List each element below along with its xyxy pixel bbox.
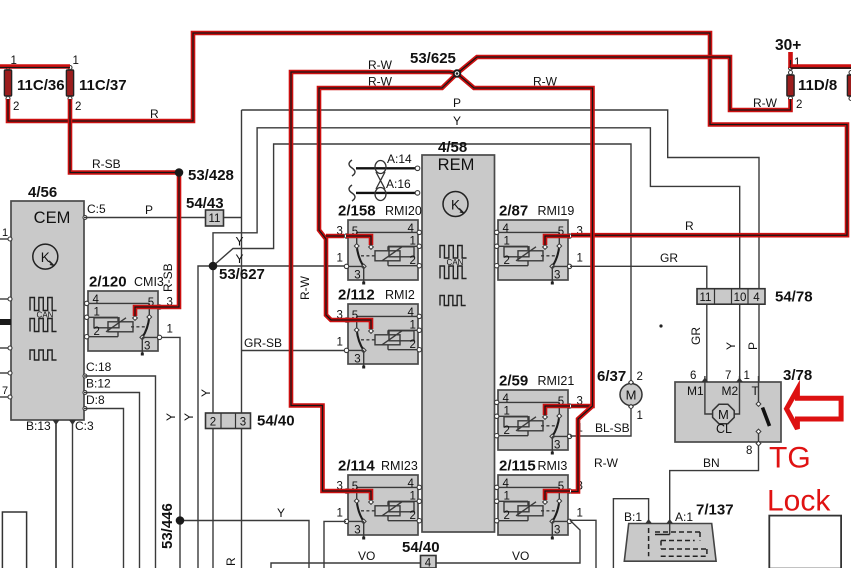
svg-text:4: 4 <box>503 393 510 405</box>
wire R-SB: 11C/37 pin2 down to junction 53/428 then down to relay 2/120 pin 3 <box>70 99 179 307</box>
svg-text:4: 4 <box>503 223 510 235</box>
wire D:8 from CEM down <box>83 393 124 568</box>
junction 53/428 <box>188 167 234 184</box>
wire Y: junction 53/627 diagonal path to motor 6/37 <box>213 144 631 381</box>
wire VO: relay 2/115 pin 1 through connector 54/40 pin 4 <box>271 520 596 568</box>
svg-text:1: 1 <box>504 491 510 503</box>
stray ink dot <box>659 324 662 327</box>
svg-text:Y: Y <box>236 235 244 249</box>
svg-text:2/59: 2/59 <box>499 373 528 390</box>
wire: 11D/8 pin1 to right edge <box>791 67 851 69</box>
svg-text:VO: VO <box>358 549 375 563</box>
wire: battery feed top-left horizontal <box>0 67 70 69</box>
svg-text:1: 1 <box>577 508 583 520</box>
svg-text:2: 2 <box>94 326 100 338</box>
REM control module 4/58 <box>422 139 495 532</box>
svg-text:2: 2 <box>504 425 510 437</box>
svg-text:1: 1 <box>577 253 583 265</box>
connector 54/78 pins 11 10 4 <box>697 289 813 306</box>
fuse 11C/37 <box>66 55 126 113</box>
red arrow pointing at 3/78 lock switch <box>787 389 842 429</box>
svg-text:11D/8: 11D/8 <box>798 77 837 94</box>
svg-text:CEM: CEM <box>34 209 71 227</box>
svg-text:2/87: 2/87 <box>499 203 528 220</box>
svg-text:B:13: B:13 <box>26 419 51 433</box>
component box at bottom left edge <box>2 512 26 568</box>
wire Y: junction 53/627 down to connector 54/40 pin 2 <box>212 266 214 568</box>
wire Y: junction 53/627 right arm to relay 2/158 pin 1 <box>213 265 346 267</box>
wire C:18 from CEM down <box>83 360 156 568</box>
twisted pair wires A:14 A:16 into REM <box>349 152 420 201</box>
svg-text:C:5: C:5 <box>87 202 106 216</box>
svg-text:1: 1 <box>744 370 750 382</box>
svg-text:1: 1 <box>94 307 100 319</box>
svg-text:11C/36: 11C/36 <box>17 77 65 94</box>
red marker overlay traces <box>0 64 70 68</box>
svg-text:10: 10 <box>734 292 747 304</box>
svg-text:3: 3 <box>354 354 360 366</box>
svg-text:R-SB: R-SB <box>92 157 121 171</box>
svg-text:53/428: 53/428 <box>188 167 234 184</box>
svg-text:11C/37: 11C/37 <box>79 77 127 94</box>
svg-text:RMI3: RMI3 <box>538 459 568 473</box>
svg-text:A:1: A:1 <box>675 510 693 524</box>
fuse 11D/8 <box>787 71 837 112</box>
svg-text:8: 8 <box>746 445 752 457</box>
switch T inside 3/78 with pin 8 <box>746 382 770 457</box>
svg-text:3: 3 <box>240 417 246 429</box>
svg-text:54/40: 54/40 <box>402 539 440 556</box>
svg-text:4: 4 <box>753 292 760 304</box>
svg-text:CL: CL <box>716 422 732 436</box>
svg-text:3: 3 <box>144 341 150 353</box>
svg-text:3/78: 3/78 <box>783 367 812 384</box>
wire P bus: CEM C:5 to connector 54/43 and vertical bus to GR-SB and 54/40 pin 3 <box>83 110 242 568</box>
svg-text:53/625: 53/625 <box>410 50 456 67</box>
svg-text:30+: 30+ <box>775 37 801 54</box>
svg-text:Y: Y <box>199 389 213 397</box>
fuse 11C/36 <box>4 55 64 113</box>
wire from 7/137 B:1 down to bottom edge <box>613 499 648 568</box>
svg-text:VO: VO <box>512 549 529 563</box>
svg-text:7: 7 <box>725 370 731 382</box>
svg-text:P: P <box>453 96 461 110</box>
svg-text:M: M <box>626 388 637 403</box>
svg-text:CMI3: CMI3 <box>134 275 164 289</box>
svg-text:4: 4 <box>408 478 415 490</box>
tailgate lock unit 3/78 <box>675 367 812 442</box>
relay 2/87 RMI19 <box>495 203 583 285</box>
connector 54/40 pin 4 <box>402 539 440 568</box>
svg-text:GR: GR <box>660 251 678 265</box>
wire Y: junction 53/627 up path to M2 line <box>213 114 740 289</box>
motor 6/37 <box>597 368 643 422</box>
svg-text:1: 1 <box>410 320 416 332</box>
svg-text:Y: Y <box>236 252 244 266</box>
svg-text:GR: GR <box>689 327 703 345</box>
svg-text:RMI19: RMI19 <box>538 204 575 218</box>
relay 2/59 RMI21 <box>495 373 583 455</box>
svg-text:P: P <box>746 342 760 350</box>
CEM control module 4/56 <box>11 184 84 420</box>
svg-text:2: 2 <box>410 339 416 351</box>
svg-text:RMI23: RMI23 <box>381 459 418 473</box>
svg-text:54/78: 54/78 <box>775 289 813 306</box>
svg-text:53/627: 53/627 <box>219 266 265 283</box>
svg-text:2/120: 2/120 <box>89 274 127 291</box>
junction 53/446 <box>159 503 184 549</box>
svg-text:3: 3 <box>554 525 560 537</box>
wire B:12 from CEM down <box>83 377 140 568</box>
svg-text:K: K <box>41 250 50 265</box>
svg-text:3: 3 <box>354 525 360 537</box>
wire 30+ feed into fuse 11D/8 <box>775 37 801 70</box>
svg-text:11: 11 <box>700 292 712 304</box>
wire P below 54/78 pin 4 to 3/78 pin 1 T <box>746 304 760 382</box>
svg-text:RMI20: RMI20 <box>385 204 422 218</box>
svg-text:C:18: C:18 <box>86 360 112 374</box>
svg-text:53/446: 53/446 <box>159 503 176 549</box>
serial comm symbol in CEM <box>30 350 57 360</box>
svg-text:11: 11 <box>209 213 221 225</box>
svg-text:4: 4 <box>425 558 432 568</box>
relay 2/115 RMI3 <box>495 458 583 540</box>
svg-text:2: 2 <box>75 101 81 113</box>
relay 2/120 CMI3 <box>84 274 173 356</box>
svg-text:4: 4 <box>503 478 510 490</box>
svg-text:Y: Y <box>182 413 196 421</box>
connector 54/40 pins 2 and 3 <box>206 413 295 430</box>
svg-text:REM: REM <box>438 156 475 174</box>
connector 54/43 pin 11 <box>186 195 224 226</box>
svg-text:TG: TG <box>769 442 811 475</box>
wire BN: 3/78 pin 8 to 7/137 A:1 <box>670 446 759 522</box>
svg-text:2: 2 <box>796 99 802 111</box>
svg-text:B:1: B:1 <box>624 510 642 524</box>
relay 2/114 RMI23 <box>337 458 423 540</box>
svg-text:Lock: Lock <box>767 485 831 518</box>
junction 53/627 <box>209 235 265 284</box>
svg-text:M1: M1 <box>687 384 704 398</box>
svg-text:4/58: 4/58 <box>438 139 467 156</box>
motor M CL inside 3/78 <box>713 404 735 436</box>
serial comm symbol in REM <box>440 296 466 306</box>
svg-text:6: 6 <box>690 370 696 382</box>
svg-text:2: 2 <box>410 255 416 267</box>
wire BL-SB: relay 2/59 pin 1 to motor 6/37 <box>570 407 631 436</box>
svg-text:Y: Y <box>724 342 738 350</box>
svg-text:BL-SB: BL-SB <box>595 421 630 435</box>
svg-text:D:8: D:8 <box>86 393 105 407</box>
wire Y below 54/78 pin 10 to 3/78 M2 <box>724 304 740 382</box>
CEM left side pin stubs <box>0 227 12 399</box>
svg-text:Y: Y <box>277 506 285 520</box>
node 53/625 <box>410 50 456 67</box>
wire R-W upper-left: node 53/625 west to x291, down, jog, down to relay 2/114 pin 3 <box>291 58 457 491</box>
svg-text:BN: BN <box>703 456 720 470</box>
svg-text:B:12: B:12 <box>86 377 111 391</box>
svg-text:M2: M2 <box>722 384 739 398</box>
svg-text:7: 7 <box>2 385 8 397</box>
svg-text:2: 2 <box>504 255 510 267</box>
svg-text:A:16: A:16 <box>386 177 411 191</box>
svg-text:54/40: 54/40 <box>257 413 295 430</box>
svg-text:4: 4 <box>408 223 415 235</box>
wire from relay 2/114 pin 1 down to bottom edge <box>324 521 346 568</box>
svg-text:1: 1 <box>337 337 343 349</box>
svg-text:3: 3 <box>354 270 360 282</box>
svg-text:2: 2 <box>410 510 416 522</box>
svg-text:2/115: 2/115 <box>499 458 536 475</box>
svg-text:GR-SB: GR-SB <box>244 336 282 350</box>
svg-text:1: 1 <box>410 491 416 503</box>
svg-text:1: 1 <box>504 236 510 248</box>
wire R-W lower-left: node 53/625 southwest to x319, down to relay 2/158 pin 3 and relay 2/112 pin 3 <box>298 74 457 321</box>
wire R: 11C/36 pin2 down, right, up, across top to x710, down, right, down to R line <box>8 33 847 235</box>
wire R-W right: node 53/625 southeast to x592.5, down to relay 2/59 pin 3, branch down to relay 2/115 pin 3 <box>457 74 619 471</box>
relay 2/158 RMI20 <box>337 203 423 285</box>
annotation TG Lock <box>767 442 831 518</box>
svg-text:2/114: 2/114 <box>338 458 375 475</box>
svg-text:RMI21: RMI21 <box>538 374 575 388</box>
CAN symbol in CEM <box>30 298 57 332</box>
svg-text:2: 2 <box>504 510 510 522</box>
svg-text:2/112: 2/112 <box>338 287 375 304</box>
svg-text:R-W: R-W <box>594 456 619 470</box>
svg-text:R-W: R-W <box>298 275 312 300</box>
svg-text:1: 1 <box>2 227 8 239</box>
svg-text:M: M <box>718 407 729 422</box>
svg-text:4/56: 4/56 <box>28 184 57 201</box>
wire GR: relay 2/87 pin 1 to connector 54/78 pin 11 and down to 3/78 M1 <box>570 251 707 382</box>
svg-text:1: 1 <box>637 410 643 422</box>
svg-text:1: 1 <box>167 324 173 336</box>
svg-text:C:3: C:3 <box>75 419 94 433</box>
CAN symbol in REM <box>440 246 467 279</box>
wire R-W: 11D/8 pin2 down, left, up and to node 53/625 <box>457 57 791 110</box>
svg-text:P: P <box>145 203 153 217</box>
relay 2/112 RMI2 <box>337 287 423 369</box>
svg-text:1: 1 <box>73 55 79 67</box>
svg-text:A:14: A:14 <box>387 152 412 166</box>
wire Y: junction 53/627 left arm down to bottom edge <box>198 266 213 568</box>
svg-text:2: 2 <box>13 101 19 113</box>
svg-text:7/137: 7/137 <box>696 502 734 519</box>
svg-text:1: 1 <box>504 406 510 418</box>
svg-text:1: 1 <box>337 253 343 265</box>
rotated Y labels above connector 54/40 <box>164 389 213 421</box>
wire P upper: across top to connector 54/78 pin 4 <box>242 96 760 289</box>
svg-text:3: 3 <box>554 440 560 452</box>
svg-text:Y: Y <box>453 114 461 128</box>
svg-text:4: 4 <box>93 294 100 306</box>
svg-text:6/37: 6/37 <box>597 368 626 385</box>
wire Y from relay 2/120 pin 1 down to junction 53/446 and right <box>158 337 309 568</box>
svg-text:1: 1 <box>337 508 343 520</box>
latch unit 7/137 <box>624 502 734 562</box>
svg-text:Y: Y <box>164 413 178 421</box>
svg-text:K: K <box>451 198 460 213</box>
svg-text:R: R <box>224 557 238 566</box>
CEM bottom pins B:13 and C:3 <box>26 419 94 568</box>
fuse sliver at right edge <box>847 75 851 96</box>
svg-text:RMI2: RMI2 <box>385 288 415 302</box>
svg-text:3: 3 <box>554 270 560 282</box>
svg-text:2: 2 <box>210 417 216 429</box>
svg-text:4: 4 <box>408 307 415 319</box>
svg-text:R: R <box>685 219 694 233</box>
svg-text:2: 2 <box>637 371 643 383</box>
component box at bottom right <box>769 516 841 568</box>
svg-text:2/158: 2/158 <box>338 203 376 220</box>
svg-text:1: 1 <box>410 236 416 248</box>
wire GR-SB to relay 2/112 pin 1 <box>242 336 347 351</box>
